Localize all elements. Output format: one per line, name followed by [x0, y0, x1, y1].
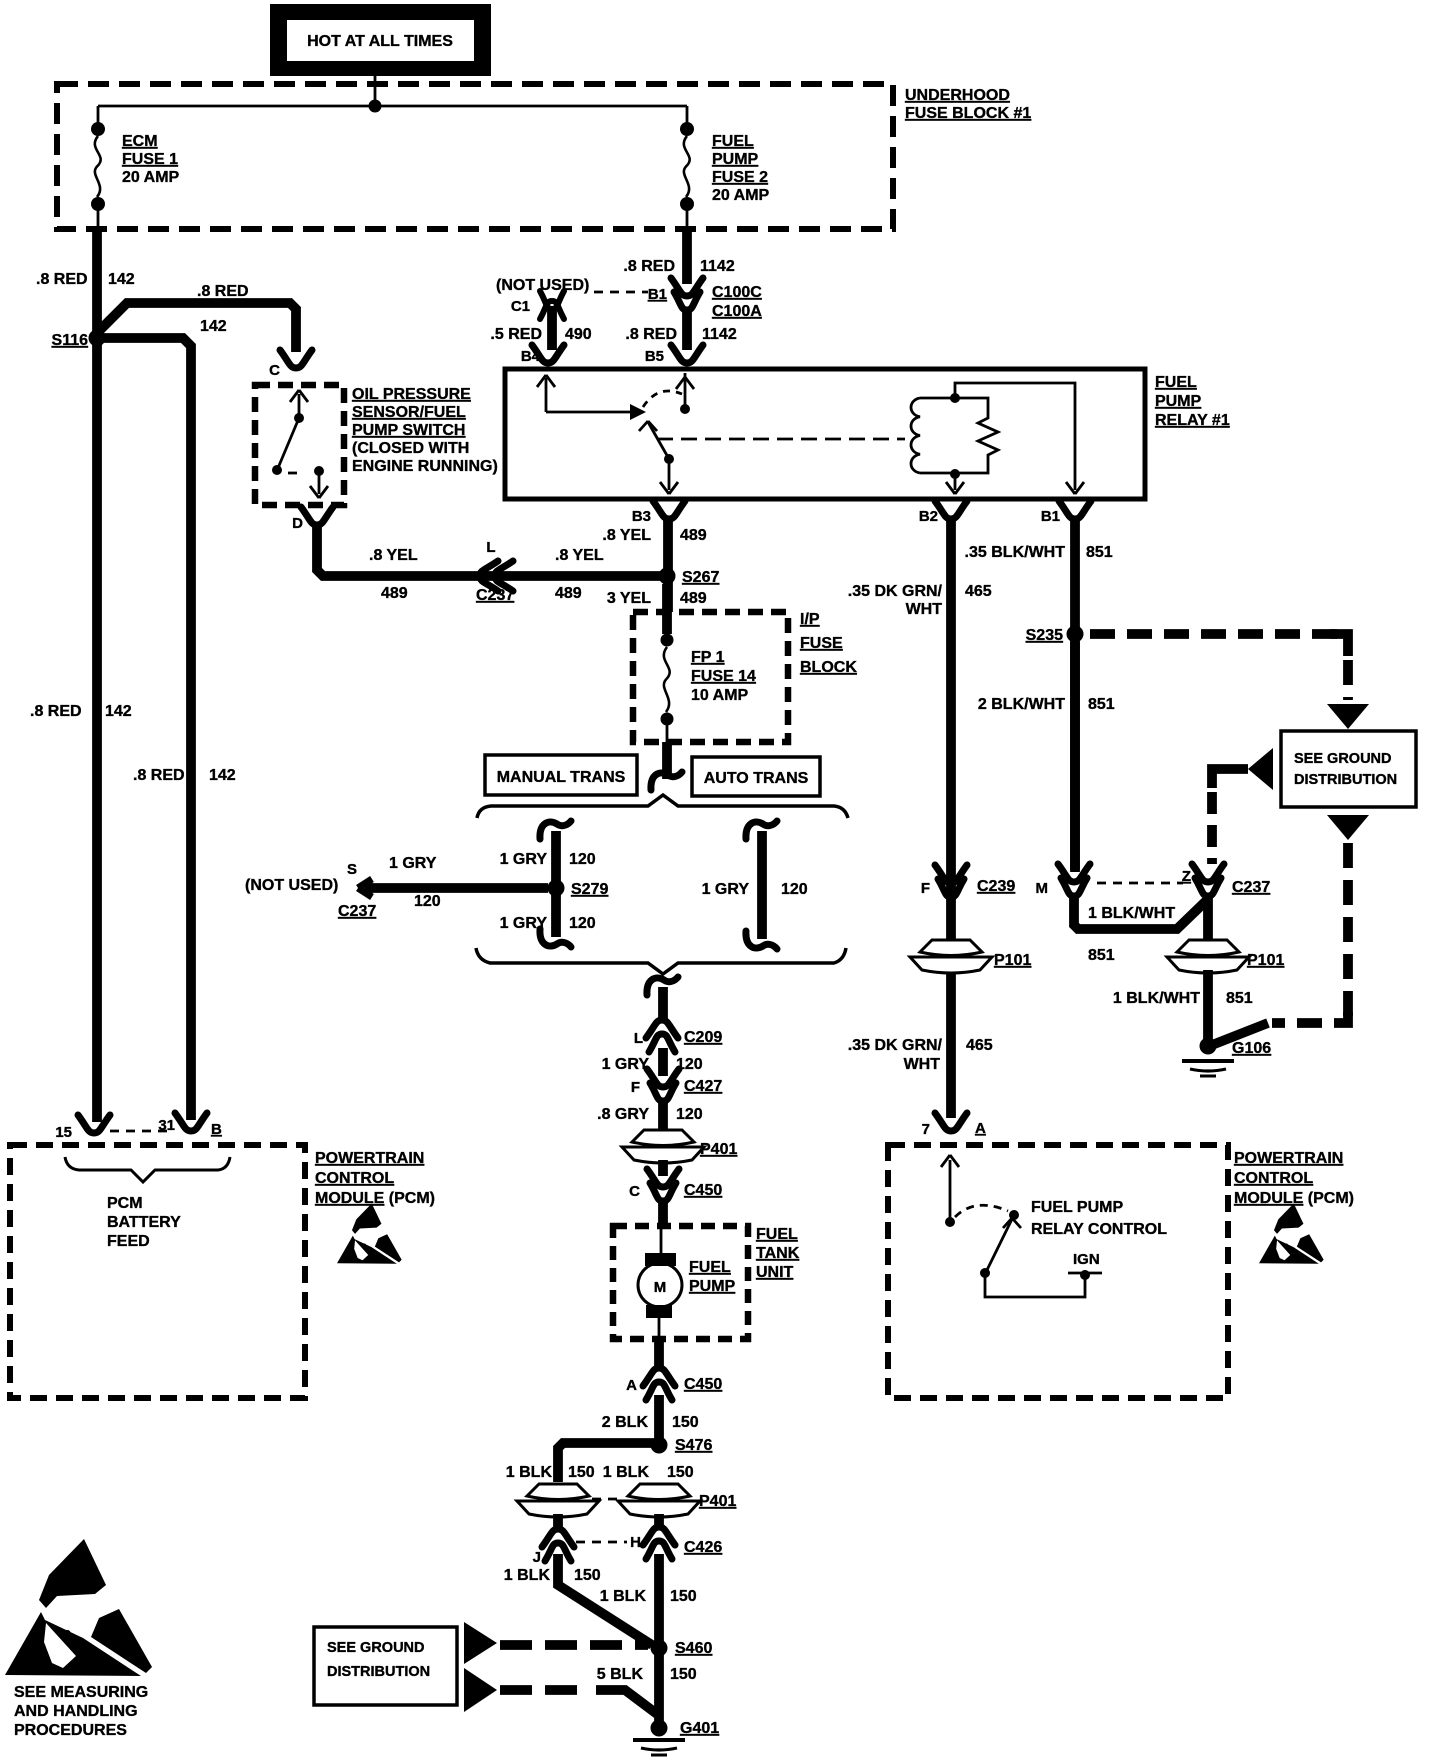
wire .8 RED 142 branch 2 to PCM — [101, 338, 191, 1120]
auto trans box — [692, 757, 820, 796]
wire from Z branch to triangle — [1212, 769, 1248, 788]
svg-text:SEE GROUND: SEE GROUND — [1294, 751, 1392, 767]
svg-text:142: 142 — [105, 703, 132, 720]
svg-text:HOT AT ALL TIMES: HOT AT ALL TIMES — [307, 33, 453, 50]
wire 3 YEL to IP fuse block — [662, 584, 672, 634]
svg-text:.8 RED: .8 RED — [623, 258, 675, 275]
svg-text:G401: G401 — [680, 1720, 719, 1737]
svg-text:H: H — [630, 1534, 641, 1551]
svg-text:DISTRIBUTION: DISTRIBUTION — [327, 1664, 430, 1680]
svg-text:AND HANDLING: AND HANDLING — [14, 1703, 138, 1720]
connector C237 L inline arrows — [480, 561, 498, 591]
wire .8 RED 142 from fuse1 — [92, 229, 102, 1122]
wire .8 RED 1142 from fuse 2 — [682, 229, 692, 284]
svg-text:PCM: PCM — [107, 1195, 143, 1212]
svg-text:UNDERHOOD: UNDERHOOD — [905, 87, 1010, 104]
connector C427 F — [647, 1069, 679, 1087]
svg-text:B1: B1 — [648, 286, 667, 303]
svg-text:PUMP: PUMP — [1155, 393, 1202, 410]
svg-text:.8 RED: .8 RED — [133, 767, 185, 784]
connector C426 J — [542, 1529, 574, 1547]
svg-text:CONTROL: CONTROL — [315, 1170, 394, 1187]
triangle upper — [464, 1622, 497, 1664]
dashed line M to Z — [1097, 882, 1183, 885]
wire 1 GRY 120 to C237 S not used — [365, 883, 548, 893]
dashed arc over switch — [643, 391, 682, 407]
grommet P401 — [632, 1130, 694, 1146]
svg-text:C427: C427 — [684, 1078, 722, 1095]
wire .5 RED 490 — [547, 309, 557, 350]
svg-text:S267: S267 — [682, 569, 719, 586]
svg-text:BLOCK: BLOCK — [800, 659, 857, 676]
svg-text:P401: P401 — [699, 1493, 736, 1510]
svg-text:B: B — [211, 1121, 222, 1138]
svg-text:1 GRY: 1 GRY — [702, 881, 750, 898]
fuse FP1 FUSE 14 10 AMP — [666, 620, 669, 634]
wire 851 from S235 to M — [1070, 642, 1080, 870]
svg-text:120: 120 — [676, 1106, 703, 1123]
svg-text:S476: S476 — [675, 1437, 712, 1454]
svg-text:1 BLK: 1 BLK — [506, 1464, 553, 1481]
connector B2 — [935, 501, 967, 519]
ground G401 — [651, 1720, 668, 1737]
svg-text:.35 DK GRN/: .35 DK GRN/ — [848, 1037, 943, 1054]
svg-text:P101: P101 — [1247, 952, 1284, 969]
svg-text:489: 489 — [555, 585, 582, 602]
svg-text:S460: S460 — [675, 1640, 712, 1657]
ground G106 — [1200, 1038, 1217, 1055]
wire 1 BLK/WHT 851 M to Z jog — [1074, 897, 1206, 929]
svg-text:150: 150 — [670, 1588, 697, 1605]
svg-text:TANK: TANK — [756, 1245, 800, 1262]
svg-text:MANUAL TRANS: MANUAL TRANS — [497, 769, 626, 786]
ESD symbol definition — [5, 1539, 152, 1676]
see ground distribution box left — [314, 1627, 457, 1705]
svg-text:MODULE (PCM): MODULE (PCM) — [315, 1190, 435, 1207]
svg-text:1142: 1142 — [702, 326, 737, 343]
dashed line C1 to B1 — [594, 291, 648, 294]
svg-text:2 BLK/WHT: 2 BLK/WHT — [978, 696, 1065, 713]
svg-text:WHT: WHT — [906, 601, 943, 618]
svg-text:1 GRY: 1 GRY — [500, 851, 548, 868]
svg-text:.8 RED: .8 RED — [197, 283, 249, 300]
svg-text:C100C: C100C — [712, 284, 762, 301]
connector B3 — [653, 501, 685, 519]
svg-text:D: D — [292, 515, 303, 532]
splice S476 — [651, 1437, 668, 1454]
svg-text:.35 DK GRN/: .35 DK GRN/ — [848, 583, 943, 600]
svg-text:1 BLK: 1 BLK — [600, 1588, 647, 1605]
svg-text:490: 490 — [565, 326, 592, 343]
svg-text:3 YEL: 3 YEL — [607, 590, 651, 607]
brace pcm battery feed — [65, 1157, 230, 1182]
wire .8 YEL 489 from D to S267 — [317, 527, 660, 576]
svg-text:DISTRIBUTION: DISTRIBUTION — [1294, 772, 1397, 788]
svg-text:10 AMP: 10 AMP — [691, 687, 749, 704]
svg-text:1142: 1142 — [700, 258, 735, 275]
svg-text:SENSOR/FUEL: SENSOR/FUEL — [352, 404, 466, 421]
svg-text:L: L — [634, 1030, 643, 1047]
grommet P401 left — [527, 1484, 589, 1500]
svg-text:FUSE: FUSE — [800, 635, 843, 652]
fuel pump motor — [660, 1226, 663, 1253]
svg-text:.8 YEL: .8 YEL — [555, 547, 604, 564]
svg-text:A: A — [626, 1377, 637, 1394]
svg-text:120: 120 — [781, 881, 808, 898]
svg-text:Z: Z — [1182, 868, 1191, 885]
svg-text:150: 150 — [672, 1414, 699, 1431]
relay movable blade — [648, 422, 669, 459]
svg-text:RELAY CONTROL: RELAY CONTROL — [1031, 1221, 1167, 1238]
see ground distribution box right — [1281, 731, 1416, 807]
svg-text:RELAY #1: RELAY #1 — [1155, 412, 1230, 429]
fuse FUEL PUMP FUSE 2 20 AMP — [686, 106, 689, 123]
svg-text:FUSE BLOCK #1: FUSE BLOCK #1 — [905, 105, 1031, 122]
connector C426 H — [643, 1527, 675, 1545]
triangle lower — [464, 1668, 497, 1712]
svg-text:SEE MEASURING: SEE MEASURING — [14, 1684, 148, 1701]
svg-text:.8 GRY: .8 GRY — [597, 1106, 649, 1123]
svg-text:851: 851 — [1086, 544, 1113, 561]
svg-text:.8 RED: .8 RED — [625, 326, 677, 343]
svg-text:BATTERY: BATTERY — [107, 1214, 181, 1231]
ESD symbol right PCM — [1259, 1203, 1324, 1263]
svg-text:1 GRY: 1 GRY — [500, 915, 548, 932]
wire .8 RED 1142 to B5 — [682, 308, 692, 350]
manual trans branch — [540, 821, 571, 839]
wire bus to both fuses — [98, 105, 687, 108]
svg-text:CONTROL: CONTROL — [1234, 1170, 1313, 1187]
connector C450 A — [643, 1368, 675, 1386]
fuel tank unit box — [613, 1226, 748, 1339]
wire J down and diagonal to S460 — [558, 1554, 652, 1645]
svg-text:142: 142 — [209, 767, 236, 784]
connector D — [301, 507, 333, 525]
top brace — [477, 795, 848, 818]
wire H down to ground — [654, 1554, 664, 1728]
wire .35 DK GRN/WHT 465 — [946, 520, 956, 1118]
svg-text:1 BLK: 1 BLK — [504, 1567, 551, 1584]
grommet P401 right — [628, 1484, 690, 1500]
svg-text:150: 150 — [670, 1666, 697, 1683]
svg-text:15: 15 — [55, 1124, 72, 1141]
svg-text:20 AMP: 20 AMP — [712, 187, 770, 204]
svg-text:465: 465 — [965, 583, 992, 600]
svg-text:FUSE 2: FUSE 2 — [712, 169, 768, 186]
svg-text:.35 BLK/WHT: .35 BLK/WHT — [965, 544, 1066, 561]
auto trans branch — [746, 821, 777, 839]
svg-text:C237: C237 — [476, 587, 514, 604]
power feed box HOT AT ALL TIMES — [270, 4, 491, 76]
dashed wire down to G106 — [1343, 843, 1353, 1018]
grommet P101 left — [920, 940, 982, 956]
svg-text:FUSE 14: FUSE 14 — [691, 668, 756, 685]
connector C237 M — [1058, 864, 1090, 882]
svg-text:IGN: IGN — [1073, 1251, 1100, 1268]
underhood fuse block #1 box — [57, 84, 893, 229]
svg-text:1 GRY: 1 GRY — [602, 1056, 650, 1073]
connector C239 F — [935, 865, 967, 883]
svg-text:PUMP: PUMP — [689, 1278, 736, 1295]
fuel pump relay #1 box — [505, 369, 1145, 499]
svg-text:FUEL: FUEL — [689, 1259, 731, 1276]
svg-text:P101: P101 — [994, 952, 1031, 969]
svg-text:851: 851 — [1088, 947, 1115, 964]
splice S235 — [1067, 626, 1084, 643]
connector 31 — [175, 1113, 207, 1131]
svg-text:851: 851 — [1088, 696, 1115, 713]
svg-text:1 BLK/WHT: 1 BLK/WHT — [1113, 990, 1200, 1007]
svg-text:S: S — [347, 861, 357, 878]
svg-text:S116: S116 — [52, 332, 89, 349]
splice S279 — [548, 880, 565, 897]
svg-text:5 BLK: 5 BLK — [597, 1666, 644, 1683]
svg-text:C209: C209 — [684, 1029, 722, 1046]
svg-text:.5 RED: .5 RED — [490, 326, 542, 343]
svg-text:A: A — [975, 1120, 986, 1137]
relay resistor — [955, 398, 998, 473]
svg-text:120: 120 — [569, 851, 596, 868]
svg-text:1 GRY: 1 GRY — [389, 855, 437, 872]
svg-text:FUEL: FUEL — [756, 1226, 798, 1243]
dashed wire to ground distribution — [1090, 629, 1337, 639]
svg-text:120: 120 — [414, 893, 441, 910]
svg-text:ECM: ECM — [122, 133, 158, 150]
grommet P101 right — [1177, 940, 1239, 956]
svg-text:7: 7 — [922, 1121, 930, 1138]
svg-text:FUEL PUMP: FUEL PUMP — [1031, 1199, 1123, 1216]
splice S116 — [89, 330, 106, 347]
svg-text:C450: C450 — [684, 1182, 722, 1199]
svg-text:S279: S279 — [571, 881, 608, 898]
powertrain control module box left — [10, 1145, 305, 1398]
wire below fuse block — [662, 742, 672, 779]
svg-text:B2: B2 — [919, 508, 938, 525]
svg-text:142: 142 — [108, 271, 135, 288]
manual trans box — [485, 755, 637, 795]
svg-text:(CLOSED WITH: (CLOSED WITH — [352, 440, 469, 457]
wire from tank — [654, 1339, 664, 1370]
svg-text:B3: B3 — [632, 508, 651, 525]
svg-text:F: F — [921, 880, 930, 897]
svg-text:L: L — [486, 539, 495, 556]
IP fuse block box — [633, 612, 788, 742]
switch contacts inside — [298, 394, 301, 416]
svg-text:(NOT USED): (NOT USED) — [245, 877, 338, 894]
wire from HOT box — [374, 76, 377, 106]
svg-text:PUMP SWITCH: PUMP SWITCH — [352, 422, 465, 439]
fuel pump relay control driver — [949, 1160, 952, 1220]
connector B5 — [671, 345, 703, 363]
triangle from wire into box — [1248, 748, 1273, 790]
fuse ECM FUSE 1 20 AMP — [97, 106, 100, 123]
svg-text:489: 489 — [381, 585, 408, 602]
svg-text:C237: C237 — [1232, 879, 1270, 896]
relay blade to B3 — [668, 459, 671, 490]
svg-text:PUMP: PUMP — [712, 151, 759, 168]
connector 15 — [78, 1115, 110, 1133]
node bus junction — [369, 100, 382, 113]
connector B1 out — [1059, 501, 1091, 519]
svg-text:C237: C237 — [338, 903, 376, 920]
oil pressure sensor/fuel pump switch box — [255, 385, 344, 505]
svg-text:B4: B4 — [521, 348, 541, 365]
svg-text:S235: S235 — [1026, 627, 1063, 644]
svg-text:B1: B1 — [1041, 508, 1060, 525]
relay B5 input — [684, 373, 687, 406]
dashed between C426 halves — [576, 1541, 627, 1544]
svg-text:AUTO TRANS: AUTO TRANS — [704, 770, 809, 787]
dashed between grommets — [592, 1498, 623, 1501]
svg-text:FP 1: FP 1 — [691, 649, 725, 666]
wire below braces — [647, 977, 678, 995]
svg-text:C1: C1 — [511, 298, 530, 315]
wire .8 YEL 489 from B3 — [663, 520, 673, 612]
splice S267 — [659, 568, 676, 585]
dashed line 15 to 31 — [110, 1130, 170, 1133]
relay fixed contact — [630, 404, 646, 420]
svg-text:FUEL: FUEL — [712, 133, 754, 150]
svg-text:465: 465 — [966, 1037, 993, 1054]
svg-text:2 BLK: 2 BLK — [602, 1414, 649, 1431]
svg-text:.8 RED: .8 RED — [36, 271, 88, 288]
splice S460 — [651, 1640, 668, 1657]
svg-text:489: 489 — [680, 527, 707, 544]
diagonal to G106 — [1212, 1023, 1268, 1045]
svg-text:OIL PRESSURE: OIL PRESSURE — [352, 386, 471, 403]
svg-text:UNIT: UNIT — [756, 1264, 794, 1281]
wire from Z down — [1203, 897, 1213, 940]
svg-text:WHT: WHT — [904, 1056, 941, 1073]
connector C209 L — [646, 1020, 678, 1038]
svg-text:1 BLK/WHT: 1 BLK/WHT — [1088, 905, 1175, 922]
powertrain control module box right — [888, 1145, 1228, 1398]
svg-text:FUSE 1: FUSE 1 — [122, 151, 178, 168]
bottom brace — [476, 948, 846, 974]
svg-text:M: M — [1036, 880, 1049, 897]
svg-text:C100A: C100A — [712, 303, 762, 320]
svg-text:20 AMP: 20 AMP — [122, 169, 180, 186]
svg-text:C239: C239 — [977, 878, 1015, 895]
svg-text:FUEL: FUEL — [1155, 374, 1197, 391]
svg-text:M: M — [654, 1279, 667, 1296]
svg-text:POWERTRAIN: POWERTRAIN — [1234, 1150, 1343, 1167]
svg-text:150: 150 — [574, 1567, 601, 1584]
relay switch common from B4 — [545, 378, 548, 412]
dashed wire upper to S460 — [500, 1640, 648, 1650]
connector 7 at PCM — [935, 1113, 967, 1131]
svg-text:SEE GROUND: SEE GROUND — [327, 1640, 425, 1656]
connector C450 C — [647, 1169, 679, 1187]
svg-text:FEED: FEED — [107, 1233, 150, 1250]
dashed actuation link — [657, 438, 905, 441]
connector C at oil pressure switch — [280, 350, 312, 368]
svg-text:142: 142 — [200, 318, 227, 335]
svg-text:C450: C450 — [684, 1376, 722, 1393]
svg-text:120: 120 — [569, 915, 596, 932]
svg-text:F: F — [631, 1079, 640, 1096]
wire .8 RED 142 branch to oil pressure switch — [99, 303, 296, 352]
svg-text:150: 150 — [667, 1464, 694, 1481]
svg-text:POWERTRAIN: POWERTRAIN — [315, 1150, 424, 1167]
connector C237 Z — [1192, 864, 1224, 882]
svg-text:P401: P401 — [700, 1141, 737, 1158]
svg-text:C: C — [629, 1183, 640, 1200]
ESD symbol left PCM — [337, 1203, 402, 1263]
svg-text:.8 RED: .8 RED — [30, 703, 82, 720]
connector C100C/C100A pin B1 — [671, 278, 703, 296]
svg-text:I/P: I/P — [800, 611, 820, 628]
svg-text:1 BLK: 1 BLK — [603, 1464, 650, 1481]
branch left from S476 — [558, 1443, 659, 1482]
svg-text:B5: B5 — [645, 348, 664, 365]
svg-text:ENGINE RUNNING): ENGINE RUNNING) — [352, 458, 498, 475]
svg-text:489: 489 — [680, 590, 707, 607]
svg-text:150: 150 — [568, 1464, 595, 1481]
relay coil + resistor — [950, 393, 960, 403]
svg-text:J: J — [533, 1549, 541, 1566]
svg-text:851: 851 — [1226, 990, 1253, 1007]
svg-text:PROCEDURES: PROCEDURES — [14, 1722, 127, 1739]
dashed wire lower — [500, 1685, 588, 1695]
svg-text:C: C — [269, 362, 280, 379]
svg-text:G106: G106 — [1232, 1040, 1271, 1057]
connector B4 — [532, 345, 564, 363]
triangle below box — [1327, 815, 1369, 840]
svg-text:C426: C426 — [684, 1539, 722, 1556]
wire .35 BLK/WHT 851 — [1070, 520, 1080, 872]
triangle to see ground distribution — [1327, 704, 1369, 729]
svg-text:.8 YEL: .8 YEL — [369, 547, 418, 564]
svg-text:.8 YEL: .8 YEL — [602, 527, 651, 544]
